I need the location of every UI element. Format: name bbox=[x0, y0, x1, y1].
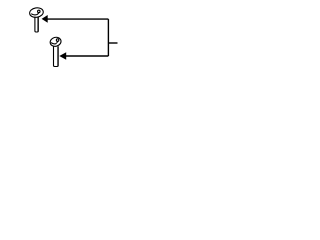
screw S2 slot tail bbox=[57, 41, 58, 43]
wire right stub bbox=[108, 42, 117, 44]
screw S2 (bottom screw) bbox=[49, 36, 62, 66]
screw S1 shaft shade line bbox=[37, 17, 39, 31]
wire top horizontal bbox=[47, 18, 108, 20]
screw S1 (top screw) bbox=[29, 7, 44, 32]
screw S2 shaft bbox=[54, 46, 59, 67]
screw S2 drive circle bbox=[56, 39, 59, 42]
screw S2 shaft shade line bbox=[57, 47, 59, 66]
screw S1 slot tail bbox=[38, 13, 39, 15]
screw S2 head bbox=[49, 36, 62, 48]
wire bottom horizontal bbox=[66, 55, 109, 57]
screw S2 face line bbox=[51, 43, 57, 44]
arrow A1 (points to top screw) bbox=[42, 15, 48, 23]
screw S1 drive circle bbox=[38, 10, 41, 13]
wire right vertical bbox=[107, 19, 109, 56]
arrow A2 (points to bottom screw) bbox=[59, 52, 66, 59]
screw S1 head bbox=[29, 7, 44, 18]
screw S1 face line bbox=[31, 14, 38, 15]
screw S1 shaft bbox=[35, 17, 38, 32]
